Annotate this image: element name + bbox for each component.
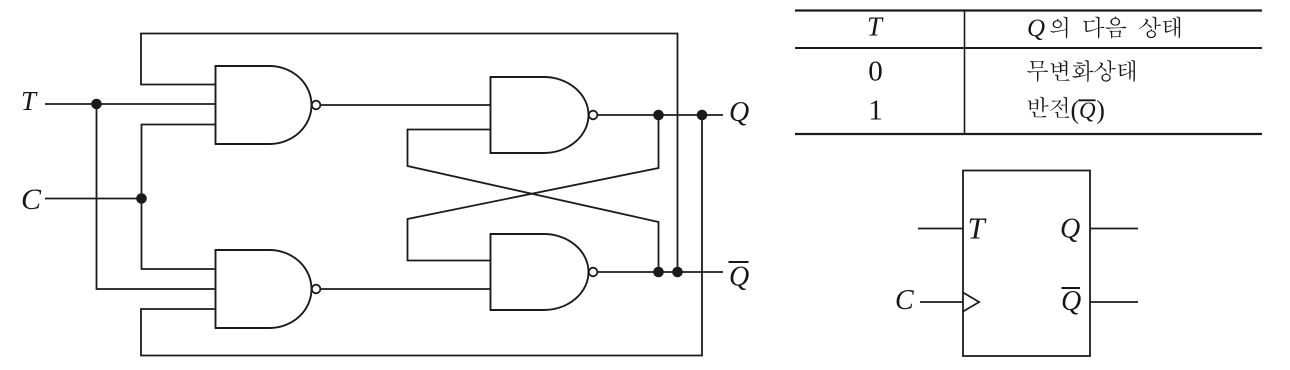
svg-text:Q: Q — [1061, 286, 1081, 317]
nand gate G2 (bottom-left, 3-input) — [216, 250, 321, 328]
svg-text:Q: Q — [729, 97, 749, 128]
nand gate G1 (top-left, 3-input) — [216, 66, 321, 144]
svg-text:): ) — [1096, 96, 1105, 125]
svg-text:(: ( — [1071, 96, 1080, 125]
T flip-flop block U1 — [963, 171, 1090, 357]
node Q feedback junction — [697, 110, 708, 121]
table cell text invert — [1028, 97, 1070, 118]
svg-text:Q: Q — [729, 262, 749, 293]
wire FF Q output — [1090, 228, 1138, 230]
table header text ui — [1050, 17, 1067, 39]
svg-text:T: T — [21, 86, 38, 116]
wire FF clock input — [920, 301, 963, 303]
wire feedback Qbar to G1 (outer top loop) — [141, 34, 678, 273]
wire FF T input — [918, 228, 963, 230]
node cross-couple on Q — [653, 110, 664, 121]
table top rule — [795, 9, 1262, 11]
svg-text:T: T — [867, 12, 884, 42]
svg-text:C: C — [21, 183, 42, 216]
wire feedback Q to G2 (outer bottom loop) — [141, 115, 702, 356]
FF clock edge triangle — [963, 293, 979, 312]
wire T branch to gate G2 — [97, 104, 216, 289]
table header rule — [795, 47, 1262, 49]
wire G1 output to G3 input — [321, 104, 491, 106]
label Qbar output — [729, 262, 750, 293]
wire cross-couple Qbar to G3 input — [408, 130, 659, 273]
nand gate G4 (bottom-right latch) — [491, 234, 598, 310]
table cell (Qbar) annotation — [1071, 96, 1105, 125]
wire C branch to gate G2 — [142, 199, 216, 270]
wire T input — [45, 103, 216, 105]
node cross-couple on Qbar — [653, 267, 664, 278]
svg-text:T: T — [968, 211, 988, 246]
wire cross-couple Q to G4 input — [408, 115, 659, 261]
svg-text:C: C — [895, 285, 914, 316]
label FF pin Qbar — [1061, 286, 1081, 317]
svg-text:1: 1 — [868, 95, 883, 127]
table bottom rule — [795, 133, 1262, 135]
svg-text:0: 0 — [868, 56, 883, 88]
nand gate G3 (top-right latch) — [491, 77, 598, 153]
node Qbar feedback junction — [672, 267, 683, 278]
wire C input — [45, 198, 142, 200]
table header word daeum — [1083, 17, 1126, 39]
wire G2 output to G4 input — [321, 288, 491, 290]
table column divider — [964, 11, 966, 135]
node T junction — [91, 99, 102, 110]
wire C branch to gate G1 — [142, 125, 216, 199]
wire FF Qbar output — [1090, 301, 1138, 303]
table cell text no-change-state — [1027, 60, 1135, 82]
node C junction — [136, 193, 147, 204]
svg-text:Q: Q — [1060, 214, 1080, 245]
wire Q output line — [598, 114, 723, 116]
svg-text:Q: Q — [1079, 98, 1096, 123]
wire Qbar output line — [598, 271, 723, 273]
svg-text:Q: Q — [1027, 15, 1045, 42]
table header word sangtae — [1139, 17, 1180, 39]
